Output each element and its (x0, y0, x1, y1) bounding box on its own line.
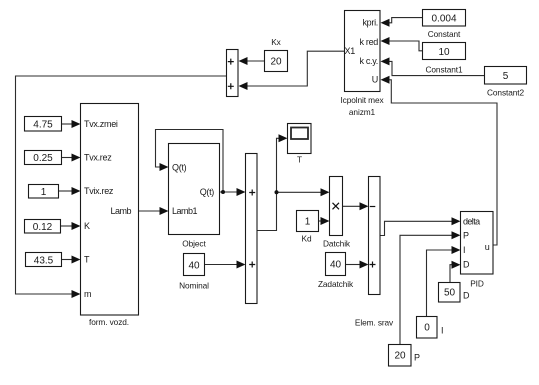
svg-text:5: 5 (503, 71, 509, 82)
svg-text:kpri.: kpri. (362, 18, 378, 28)
svg-text:43.5: 43.5 (34, 256, 54, 267)
svg-text:X1: X1 (345, 46, 356, 56)
svg-text:4.75: 4.75 (33, 120, 53, 131)
svg-text:Nominal: Nominal (179, 281, 209, 291)
svg-text:D: D (463, 291, 470, 301)
svg-text:k red: k red (359, 37, 378, 47)
svg-text:Tvix.rez: Tvix.rez (84, 186, 114, 196)
svg-text:Object: Object (182, 239, 206, 249)
svg-text:Q(t): Q(t) (172, 163, 187, 173)
svg-text:Constant1: Constant1 (426, 65, 463, 75)
svg-text:0: 0 (424, 323, 430, 334)
svg-text:u: u (485, 242, 490, 252)
svg-text:20: 20 (394, 351, 406, 362)
svg-text:0.004: 0.004 (431, 14, 456, 25)
svg-text:T: T (84, 255, 90, 265)
svg-text:Zadatchik: Zadatchik (318, 279, 354, 289)
svg-text:form. vozd.: form. vozd. (89, 317, 129, 327)
svg-text:Elem. srav: Elem. srav (355, 318, 394, 328)
svg-text:Tvx.rez: Tvx.rez (84, 153, 112, 163)
svg-text:Datchik: Datchik (323, 239, 351, 249)
svg-text:U: U (372, 75, 378, 85)
svg-text:Constant2: Constant2 (487, 88, 524, 98)
svg-text:delta: delta (463, 217, 480, 227)
svg-text:P: P (414, 353, 420, 363)
svg-text:1: 1 (305, 217, 311, 228)
svg-text:m: m (84, 289, 91, 299)
svg-text:10: 10 (438, 47, 450, 58)
svg-text:I: I (463, 245, 465, 255)
svg-text:Kd: Kd (302, 234, 312, 244)
svg-text:0.25: 0.25 (33, 153, 53, 164)
svg-text:D: D (463, 260, 470, 270)
svg-text:Q(t): Q(t) (200, 187, 215, 197)
svg-text:Tvx.zmei: Tvx.zmei (84, 119, 118, 129)
svg-text:0.12: 0.12 (33, 222, 53, 233)
svg-text:Constant: Constant (428, 29, 461, 39)
svg-text:T: T (297, 155, 302, 165)
svg-text:Kx: Kx (271, 37, 281, 47)
svg-text:20: 20 (270, 57, 282, 68)
svg-text:P: P (463, 231, 469, 241)
svg-text:anizm1: anizm1 (349, 107, 376, 117)
svg-text:Icpolnit mex: Icpolnit mex (340, 95, 384, 105)
svg-text:I: I (441, 326, 443, 336)
svg-text:k c.y.: k c.y. (359, 56, 378, 66)
svg-text:Lamb: Lamb (110, 206, 131, 216)
svg-text:40: 40 (188, 261, 200, 272)
svg-text:1: 1 (41, 187, 47, 198)
svg-text:50: 50 (444, 288, 456, 299)
svg-text:K: K (84, 221, 90, 231)
svg-text:PID: PID (470, 279, 484, 289)
svg-text:40: 40 (330, 260, 342, 271)
svg-text:Lamb1: Lamb1 (172, 206, 198, 216)
